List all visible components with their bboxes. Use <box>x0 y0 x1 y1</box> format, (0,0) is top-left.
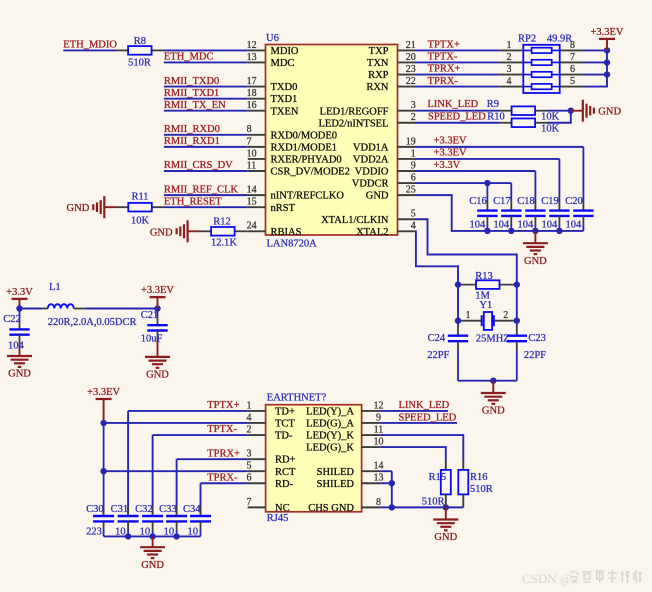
svg-text:GND: GND <box>434 532 457 543</box>
svg-text:C18: C18 <box>517 196 535 207</box>
svg-text:23: 23 <box>406 64 416 75</box>
svg-text:RMII_TXD0: RMII_TXD0 <box>164 76 219 87</box>
svg-text:9: 9 <box>411 160 416 171</box>
svg-text:510R: 510R <box>128 58 151 69</box>
svg-text:6: 6 <box>570 64 575 75</box>
svg-text:7: 7 <box>247 497 252 508</box>
svg-text:RXP: RXP <box>368 70 389 81</box>
svg-text:3: 3 <box>507 64 512 75</box>
svg-text:18: 18 <box>247 88 257 99</box>
svg-text:R12: R12 <box>213 216 231 227</box>
svg-text:RXN: RXN <box>366 82 389 93</box>
svg-text:LINK_LED: LINK_LED <box>399 400 450 411</box>
svg-text:C16: C16 <box>469 196 487 207</box>
svg-text:CSDN @: CSDN @ <box>522 571 572 586</box>
svg-text:TPRX-: TPRX- <box>428 76 459 87</box>
svg-text:GND: GND <box>141 560 164 571</box>
svg-text:1: 1 <box>507 40 512 51</box>
svg-text:RMII_TXD1: RMII_TXD1 <box>164 88 219 99</box>
svg-text:Y1: Y1 <box>479 300 492 311</box>
svg-text:GND: GND <box>146 370 169 381</box>
svg-text:104: 104 <box>8 341 25 352</box>
svg-text:+3.3EV: +3.3EV <box>141 285 174 296</box>
svg-text:1: 1 <box>411 148 416 159</box>
svg-text:TXN: TXN <box>367 58 389 69</box>
svg-text:17: 17 <box>247 76 257 87</box>
svg-text:14: 14 <box>247 185 257 196</box>
svg-text:SHILED: SHILED <box>317 479 355 490</box>
svg-text:12: 12 <box>374 400 384 411</box>
svg-text:3: 3 <box>247 449 252 460</box>
svg-text:6: 6 <box>411 172 416 183</box>
svg-text:XTAL2: XTAL2 <box>356 227 388 238</box>
svg-text:C20: C20 <box>565 196 583 207</box>
svg-text:ETH_MDC: ETH_MDC <box>164 52 214 63</box>
svg-text:TXEN: TXEN <box>271 106 299 117</box>
svg-text:11: 11 <box>374 424 384 435</box>
svg-text:C22: C22 <box>3 314 21 325</box>
svg-text:510R: 510R <box>470 484 493 495</box>
svg-text:GND: GND <box>150 227 173 238</box>
svg-text:9: 9 <box>376 412 381 423</box>
svg-text:22PF: 22PF <box>524 350 546 361</box>
svg-text:TPTX+: TPTX+ <box>207 400 239 411</box>
svg-text:16: 16 <box>247 100 257 111</box>
svg-text:nRST: nRST <box>271 203 296 214</box>
svg-text:LAN8720A: LAN8720A <box>267 239 318 250</box>
svg-text:LED(G)_K: LED(G)_K <box>306 443 354 454</box>
svg-text:CHS GND: CHS GND <box>308 503 354 514</box>
svg-text:SPEED_LED: SPEED_LED <box>399 412 457 423</box>
svg-text:12.1K: 12.1K <box>211 237 237 248</box>
svg-text:12: 12 <box>247 40 257 51</box>
svg-text:L1: L1 <box>49 282 61 293</box>
svg-text:1: 1 <box>247 400 252 411</box>
svg-text:VDDCR: VDDCR <box>352 179 389 190</box>
svg-text:10: 10 <box>247 148 257 159</box>
svg-text:1: 1 <box>466 310 471 321</box>
svg-text:R13: R13 <box>475 271 493 282</box>
svg-text:5: 5 <box>411 209 416 220</box>
svg-text:VDDIO: VDDIO <box>355 167 389 178</box>
svg-text:RD-: RD- <box>275 479 294 490</box>
svg-text:RMII_TX_EN: RMII_TX_EN <box>164 100 226 111</box>
svg-text:C34: C34 <box>183 504 201 515</box>
svg-text:C24: C24 <box>428 333 446 344</box>
svg-text:SHILED: SHILED <box>317 467 355 478</box>
svg-text:XTAL1/CLKIN: XTAL1/CLKIN <box>321 215 389 226</box>
svg-text:+3.3EV: +3.3EV <box>434 136 467 147</box>
svg-text:TXD0: TXD0 <box>271 82 298 93</box>
svg-text:24: 24 <box>247 221 257 232</box>
svg-text:22PF: 22PF <box>427 350 449 361</box>
svg-text:2: 2 <box>247 424 252 435</box>
svg-text:RXD0/MODE0: RXD0/MODE0 <box>271 130 338 141</box>
svg-text:ETH_RESET: ETH_RESET <box>164 196 222 207</box>
svg-text:R16: R16 <box>470 472 488 483</box>
svg-text:21: 21 <box>406 40 416 51</box>
svg-text:5: 5 <box>570 76 575 87</box>
svg-text:8: 8 <box>247 124 252 135</box>
svg-text:4: 4 <box>411 221 416 232</box>
svg-text:RXD1/MODE1: RXD1/MODE1 <box>271 142 338 153</box>
svg-text:6: 6 <box>247 473 252 484</box>
svg-text:+3.3EV: +3.3EV <box>87 387 120 398</box>
svg-text:U6: U6 <box>266 33 279 44</box>
svg-text:104: 104 <box>541 220 558 231</box>
svg-text:SPEED_LED: SPEED_LED <box>428 112 486 123</box>
svg-text:223: 223 <box>86 527 102 538</box>
svg-text:NC: NC <box>275 503 290 514</box>
svg-text:7: 7 <box>247 136 252 147</box>
svg-text:RXER/PHYAD0: RXER/PHYAD0 <box>271 155 342 166</box>
svg-text:TPTX-: TPTX- <box>428 52 458 63</box>
svg-text:RD+: RD+ <box>275 455 296 466</box>
svg-text:7: 7 <box>570 52 575 63</box>
svg-text:MDIO: MDIO <box>271 46 299 57</box>
svg-text:RMII_RXD1: RMII_RXD1 <box>164 136 220 147</box>
svg-text:GND: GND <box>366 191 389 202</box>
svg-text:R11: R11 <box>131 192 148 203</box>
svg-text:22: 22 <box>406 76 416 87</box>
svg-text:13: 13 <box>374 473 384 484</box>
svg-text:10: 10 <box>374 436 384 447</box>
svg-text:TPRX-: TPRX- <box>207 472 238 483</box>
svg-text:15: 15 <box>247 197 257 208</box>
svg-text:C23: C23 <box>528 333 546 344</box>
svg-text:ETH_MDIO: ETH_MDIO <box>63 40 117 51</box>
svg-text:510R: 510R <box>422 497 445 508</box>
svg-text:LINK_LED: LINK_LED <box>427 99 478 110</box>
svg-text:TXP: TXP <box>369 46 389 57</box>
svg-text:C32: C32 <box>135 504 153 515</box>
svg-text:LED1/REGOFF: LED1/REGOFF <box>320 106 389 117</box>
svg-text:RMII_RXD0: RMII_RXD0 <box>164 124 220 135</box>
svg-text:RMII_CRS_DV: RMII_CRS_DV <box>164 160 233 171</box>
svg-text:MDC: MDC <box>271 58 295 69</box>
svg-text:RCT: RCT <box>275 467 296 478</box>
svg-text:19: 19 <box>406 136 416 147</box>
svg-text:+3.3V: +3.3V <box>6 287 33 298</box>
svg-text:LED(Y)_K: LED(Y)_K <box>306 431 354 442</box>
svg-text:RBIAS: RBIAS <box>271 227 302 238</box>
svg-text:2: 2 <box>411 112 416 123</box>
svg-text:TPTX+: TPTX+ <box>428 40 460 51</box>
svg-text:R9: R9 <box>487 99 499 110</box>
svg-text:11: 11 <box>247 160 257 171</box>
svg-text:nINT/REFCLKO: nINT/REFCLKO <box>271 191 345 202</box>
svg-text:TCT: TCT <box>275 419 295 430</box>
svg-text:TXD1: TXD1 <box>271 94 298 105</box>
svg-text:8: 8 <box>376 497 381 508</box>
svg-text:GND: GND <box>524 256 547 267</box>
svg-text:LED2/nINTSEL: LED2/nINTSEL <box>319 118 389 129</box>
svg-text:LED(G)_A: LED(G)_A <box>306 419 354 430</box>
svg-text:GND: GND <box>598 107 621 118</box>
svg-text:GND: GND <box>67 203 90 214</box>
svg-text:20: 20 <box>406 52 416 63</box>
svg-text:5: 5 <box>247 461 252 472</box>
svg-text:+3.3EV: +3.3EV <box>434 148 467 159</box>
svg-text:4: 4 <box>507 76 512 87</box>
svg-text:10uF: 10uF <box>141 334 163 345</box>
svg-text:C21: C21 <box>141 310 159 321</box>
svg-text:104: 104 <box>517 220 534 231</box>
svg-text:VDD2A: VDD2A <box>353 155 389 166</box>
svg-text:GND: GND <box>482 406 505 417</box>
svg-text:10K: 10K <box>541 112 560 123</box>
svg-text:C30: C30 <box>86 504 104 515</box>
svg-text:TD-: TD- <box>275 431 293 442</box>
svg-text:13: 13 <box>247 52 257 63</box>
svg-text:C17: C17 <box>493 196 511 207</box>
svg-text:EARTHNET?: EARTHNET? <box>267 393 327 404</box>
svg-text:+3.3V: +3.3V <box>434 160 461 171</box>
svg-text:C31: C31 <box>111 504 129 515</box>
svg-text:3: 3 <box>411 100 416 111</box>
svg-text:2: 2 <box>507 52 512 63</box>
svg-text:14: 14 <box>374 461 384 472</box>
svg-text:C33: C33 <box>159 504 177 515</box>
svg-text:R10: R10 <box>487 112 505 123</box>
svg-text:TPTX-: TPTX- <box>207 424 237 435</box>
svg-text:LED(Y)_A: LED(Y)_A <box>306 407 354 418</box>
svg-text:CSR_DV/MODE2: CSR_DV/MODE2 <box>271 167 350 178</box>
svg-text:TD+: TD+ <box>275 407 295 418</box>
svg-text:VDD1A: VDD1A <box>353 142 389 153</box>
svg-text:220R,2.0A,0.05DCR: 220R,2.0A,0.05DCR <box>48 317 137 328</box>
svg-text:RMII_REF_CLK: RMII_REF_CLK <box>164 184 239 195</box>
svg-text:R8: R8 <box>134 36 146 47</box>
svg-text:2: 2 <box>503 310 508 321</box>
svg-text:10K: 10K <box>131 215 150 226</box>
svg-text:GND: GND <box>8 369 31 380</box>
svg-text:TPRX+: TPRX+ <box>428 64 461 75</box>
svg-text:RP2: RP2 <box>518 34 536 45</box>
svg-text:TPRX+: TPRX+ <box>207 448 240 459</box>
svg-text:+3.3EV: +3.3EV <box>590 27 623 38</box>
svg-text:104: 104 <box>469 220 486 231</box>
svg-text:4: 4 <box>247 412 252 423</box>
svg-text:25: 25 <box>406 185 416 196</box>
svg-text:R15: R15 <box>429 472 447 483</box>
svg-text:104: 104 <box>493 220 510 231</box>
svg-text:104: 104 <box>565 220 582 231</box>
svg-text:RJ45: RJ45 <box>267 513 289 524</box>
svg-text:10K: 10K <box>541 124 560 135</box>
svg-text:25MHZ: 25MHZ <box>476 333 510 344</box>
svg-text:49.9R: 49.9R <box>547 34 572 45</box>
svg-text:C19: C19 <box>541 196 559 207</box>
